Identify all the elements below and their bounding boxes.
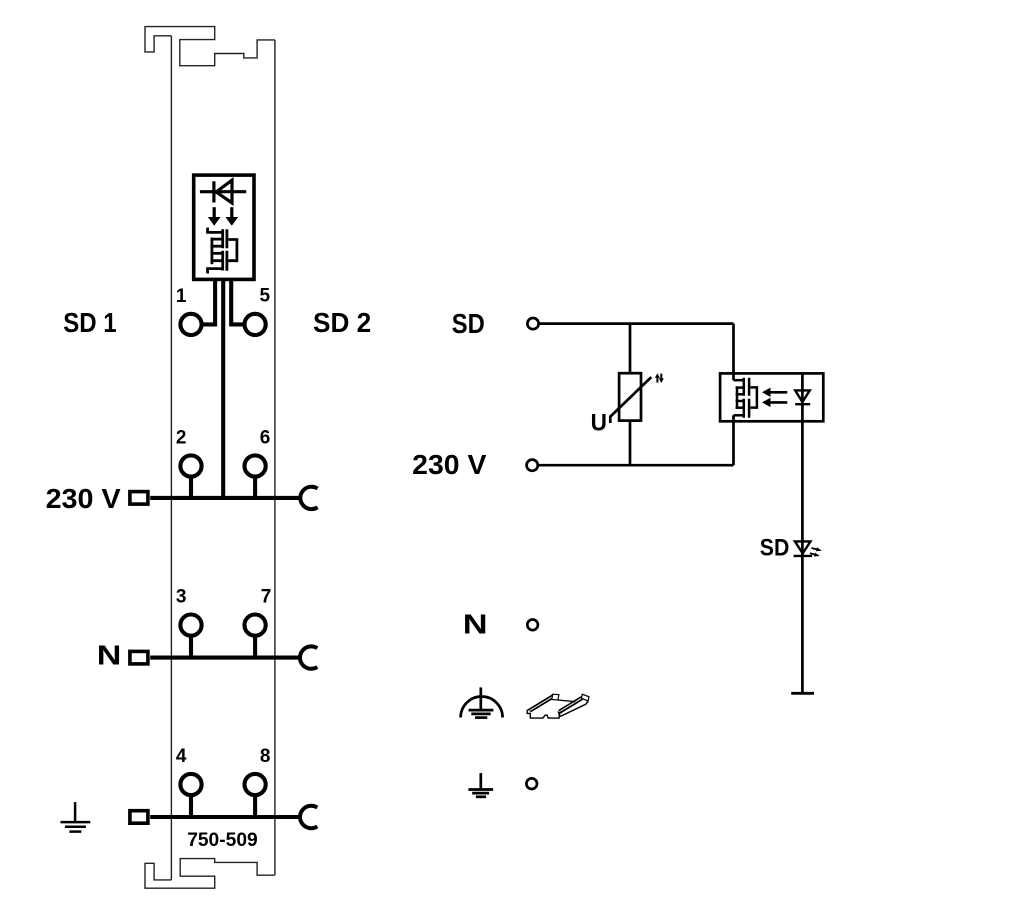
- varistor surge arrows: [655, 373, 664, 383]
- 230V wire: [538, 464, 734, 467]
- svg-text:3: 3: [176, 587, 187, 608]
- status LED D3 SD (pointing down): [794, 541, 813, 556]
- svg-text:N: N: [97, 639, 122, 670]
- svg-text:230 V: 230 V: [46, 483, 122, 514]
- varistor RV1 body: [619, 373, 641, 420]
- stub terminal 2 to 230V bus: [189, 477, 193, 498]
- PE field terminal square: [130, 811, 148, 824]
- svg-text:SD 2: SD 2: [313, 307, 371, 338]
- optocoupler block U1 in module: [194, 175, 254, 279]
- stub terminal 4 to PE bus: [189, 795, 193, 817]
- wire K1 to 230V wire: [732, 415, 735, 465]
- LED D1 in optocoupler (pointing left): [200, 180, 246, 203]
- varistor RV1 diagonal: [610, 377, 651, 423]
- svg-text:7: 7: [261, 587, 272, 608]
- wire SD wire to K1: [732, 324, 735, 381]
- light arrow to Q2 upper: [762, 388, 787, 397]
- terminal 7: [245, 615, 266, 636]
- stub terminal 8 to PE bus: [253, 795, 257, 817]
- svg-text:SD: SD: [452, 308, 485, 339]
- DIN rail icon: [527, 694, 589, 718]
- FE input terminal: [526, 778, 537, 789]
- SD input terminal: [527, 318, 538, 329]
- svg-text:U: U: [591, 409, 607, 436]
- terminal 4: [180, 774, 201, 795]
- light arrow to Q2 lower: [762, 398, 787, 407]
- svg-text:5: 5: [260, 286, 271, 307]
- stub terminal 7 to N bus: [253, 636, 257, 658]
- svg-text:750-509: 750-509: [187, 829, 258, 851]
- 230V input terminal: [527, 460, 538, 471]
- N field terminal square: [130, 651, 148, 664]
- svg-text:1: 1: [176, 286, 187, 307]
- light arrow 2 (down): [226, 207, 239, 226]
- module 750-509 housing outline top profile: [145, 27, 275, 66]
- svg-text:4: 4: [176, 746, 187, 767]
- terminal 6: [245, 455, 266, 476]
- photo-MOS output Q1 in optocoupler: [206, 228, 237, 274]
- solid-state relay K1 box: [720, 373, 823, 421]
- light arrow 1 (down): [208, 207, 221, 226]
- ground symbol at module PE: [61, 802, 91, 832]
- svg-text:8: 8: [260, 746, 271, 767]
- 230V bus continuation arc: [300, 487, 317, 509]
- module housing bottom profile: [145, 859, 275, 889]
- terminal 8: [245, 774, 266, 795]
- svg-text:SD: SD: [760, 534, 790, 561]
- module housing left edge: [170, 36, 172, 880]
- N bus continuation arc: [300, 646, 317, 668]
- protective earth symbol (arc over ground): [461, 687, 503, 717]
- terminal 2: [180, 455, 201, 476]
- LED D2 in K1 (pointing down): [795, 390, 810, 404]
- LED D3 emission arrows: [810, 547, 822, 556]
- terminal 3: [180, 615, 201, 636]
- SD wire: [539, 322, 734, 325]
- wire K1 through LED D3 to FE bar: [801, 373, 804, 693]
- svg-text:SD 1: SD 1: [63, 307, 116, 338]
- functional earth symbol: [468, 773, 493, 797]
- svg-text:230 V: 230 V: [412, 449, 487, 480]
- PE bus continuation arc: [300, 806, 317, 828]
- wire from U1 to terminal 1: [202, 279, 216, 324]
- terminal 5: [245, 314, 266, 335]
- N input terminal: [527, 620, 538, 631]
- 230V field terminal square: [130, 492, 148, 505]
- N bus wire: [150, 656, 302, 660]
- svg-text:N: N: [463, 608, 488, 639]
- wire from U1 to 230V bus: [221, 279, 225, 498]
- wire from U1 to terminal 5: [231, 279, 244, 324]
- terminal 1: [180, 314, 201, 335]
- stub terminal 3 to N bus: [189, 636, 193, 658]
- 230V bus wire: [150, 496, 302, 500]
- wire SD to varistor RV1: [629, 324, 632, 374]
- termination bar: [791, 692, 814, 695]
- module housing right edge: [274, 40, 276, 875]
- stub terminal 6 to 230V bus: [253, 477, 257, 498]
- wire varistor RV1 to 230V wire: [629, 421, 632, 466]
- PE bus wire: [150, 815, 302, 819]
- svg-text:6: 6: [260, 428, 271, 449]
- photo-MOS output Q2 in K1: [734, 378, 757, 418]
- svg-text:2: 2: [176, 428, 187, 449]
